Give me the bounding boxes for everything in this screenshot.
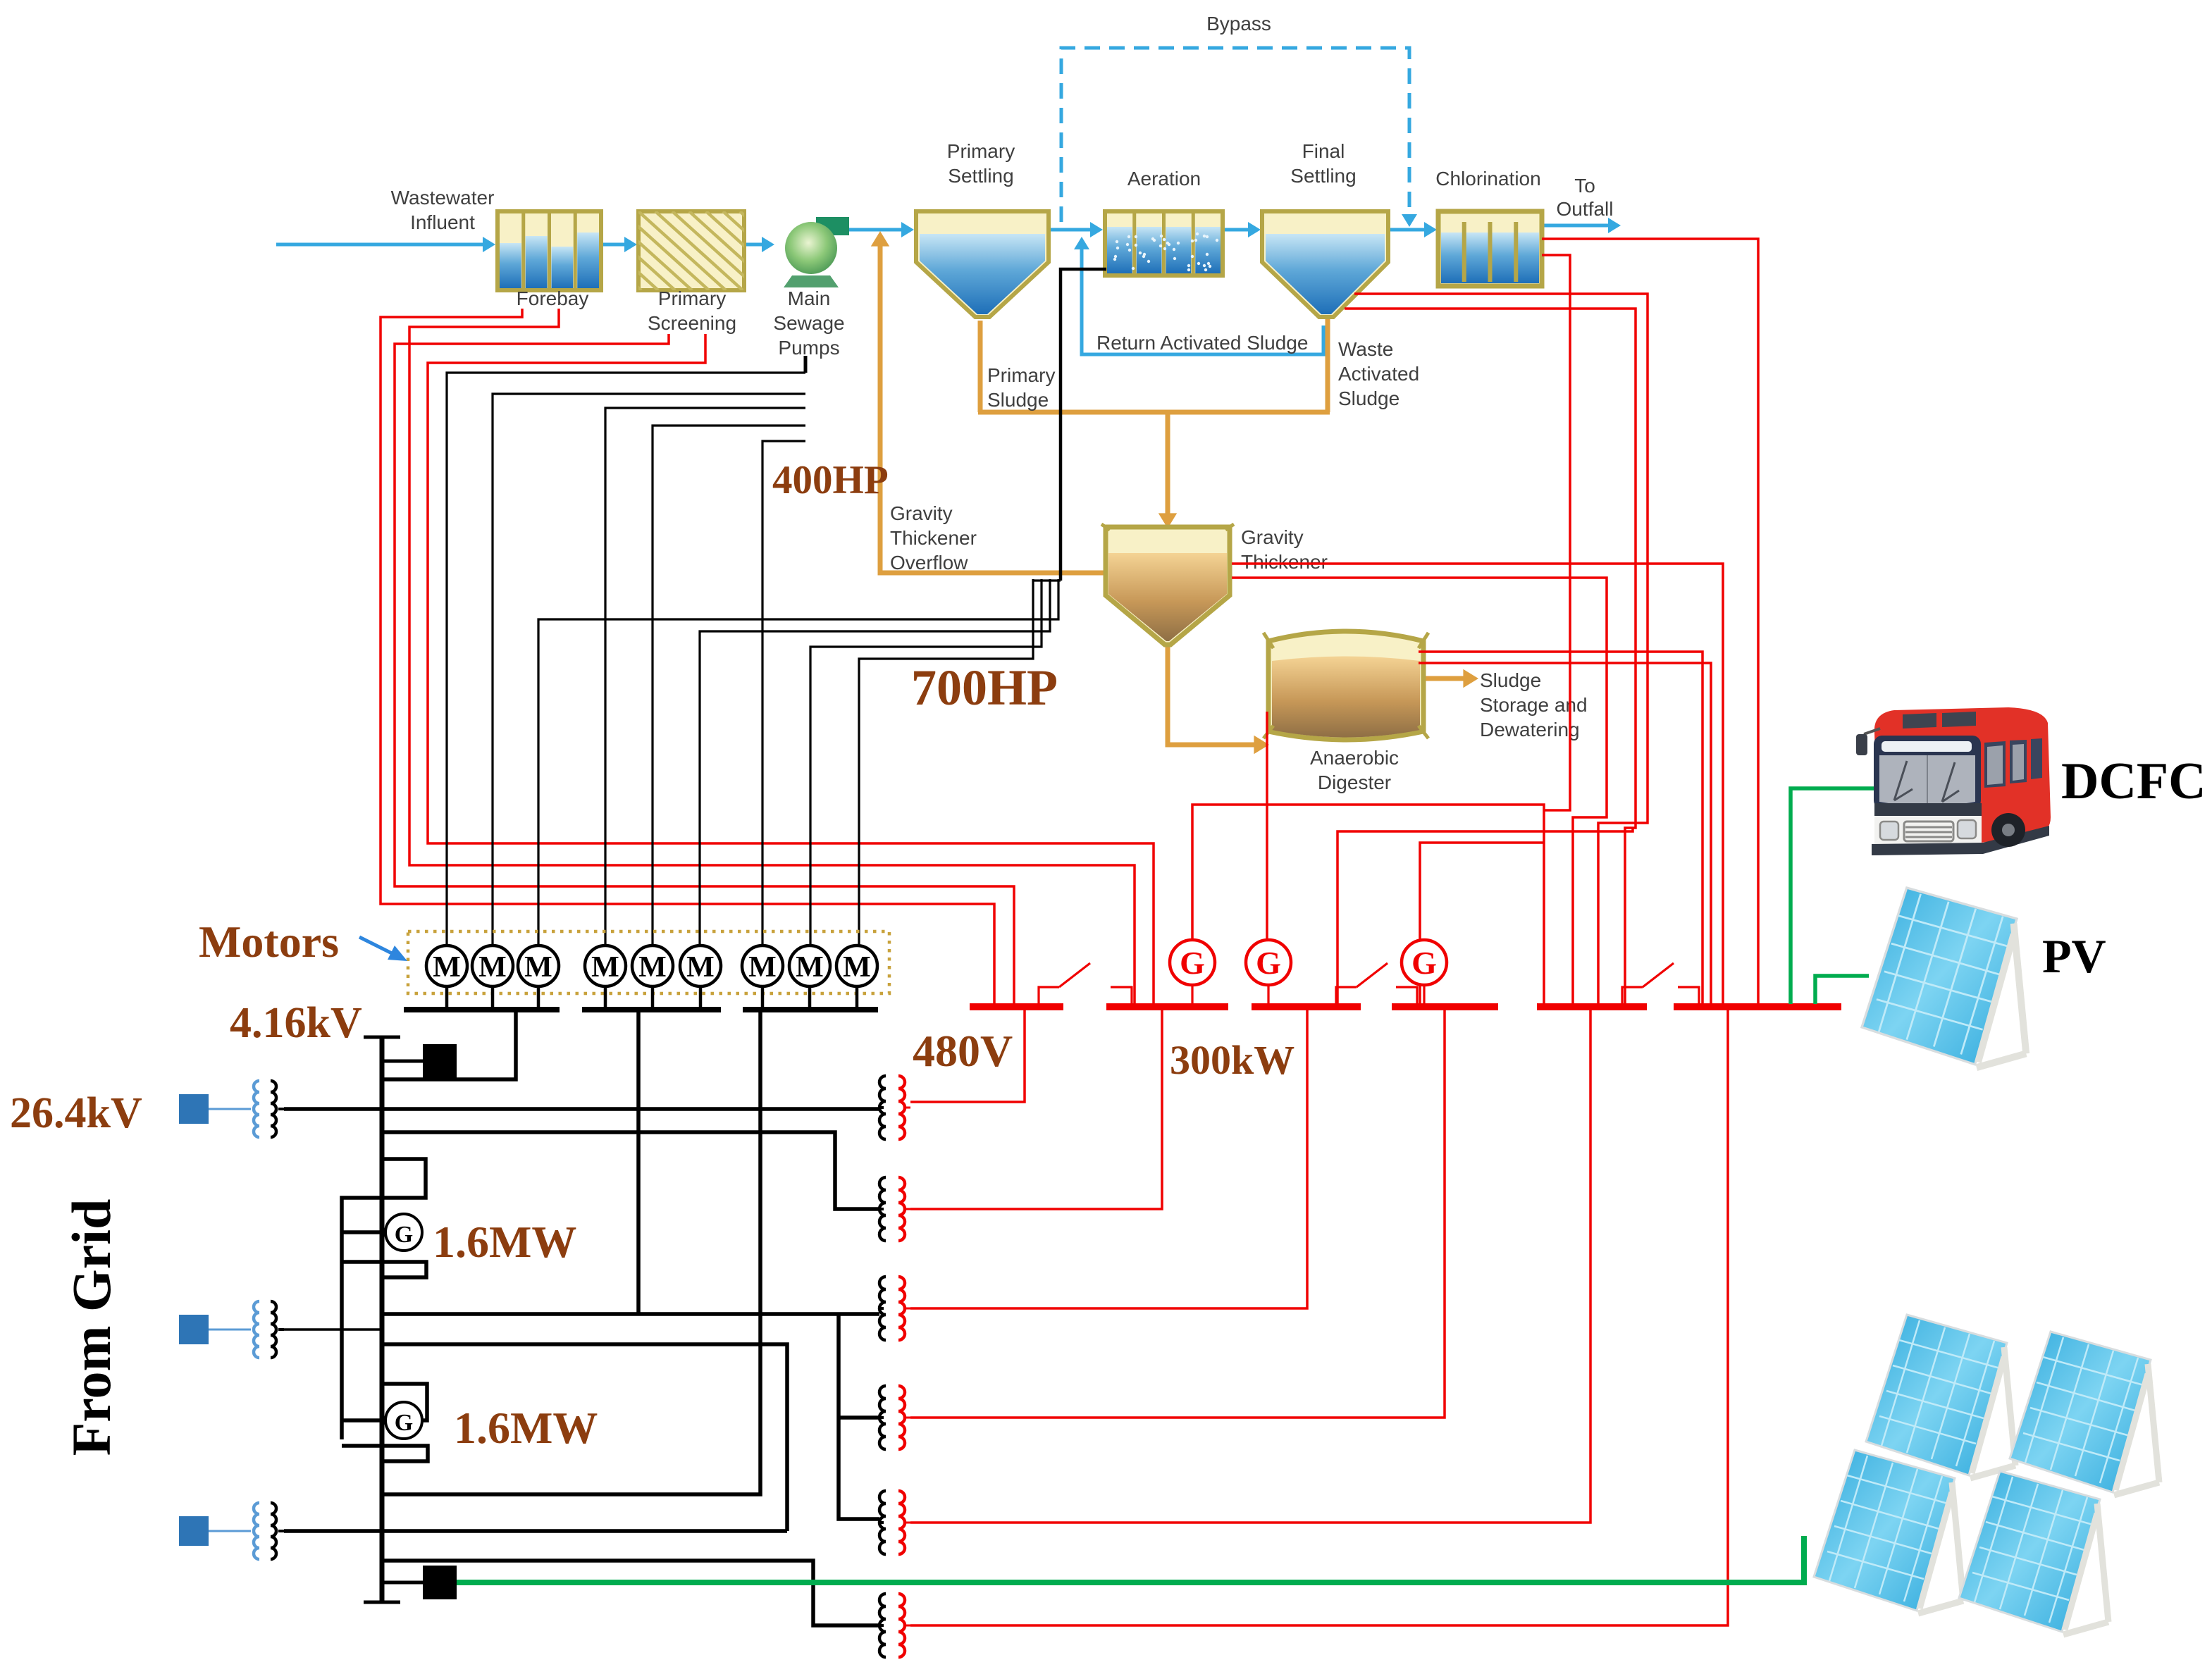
wire: thickener underflow to digester arrow	[1168, 643, 1259, 745]
bus: 4.16kV motor bus bar 2	[582, 1007, 721, 1012]
svg-text:DCFC: DCFC	[2061, 752, 2206, 810]
generator G5 (red)	[1423, 985, 1425, 1007]
motor M8	[789, 946, 830, 986]
wire: pump to primary settling arrow	[839, 228, 904, 232]
image: PV array panel back-left	[1866, 1315, 2015, 1478]
wire: 26.4kV line 3	[284, 1529, 787, 1533]
motor M3	[518, 946, 559, 986]
wire: final settling to chlorination arrow	[1390, 228, 1427, 232]
svg-text:400HP: 400HP	[772, 458, 889, 502]
svg-text:Primary: Primary	[658, 287, 726, 309]
svg-text:Sewage: Sewage	[773, 312, 844, 334]
transformer T4	[879, 1416, 884, 1419]
wire: pump label drop	[804, 356, 808, 373]
wire: return activated sludge line	[1082, 243, 1323, 354]
svg-text:G: G	[1411, 945, 1437, 981]
svg-text:Digester: Digester	[1318, 771, 1391, 793]
wire: red feed screening tap A	[395, 334, 1014, 1007]
motor M9	[836, 946, 877, 986]
generator G1	[342, 1230, 385, 1234]
wire: G2 loop top	[382, 1384, 427, 1420]
wire: waste activated sludge drop	[1326, 318, 1330, 412]
transformer T5	[879, 1521, 884, 1524]
svg-text:Primary: Primary	[987, 364, 1055, 386]
wire: G1 loop bottom	[342, 1262, 426, 1277]
grid transformer GT1	[179, 1094, 209, 1124]
pointer: motors arrow	[359, 937, 396, 955]
bus: 4.16kV main vertical	[380, 1037, 385, 1602]
wire: green DCFC feeder	[1791, 788, 1876, 1004]
wire: motor bus1 drop	[382, 1012, 516, 1079]
wire: red drop to transformer T4	[910, 1007, 1445, 1418]
svg-text:Wastewater: Wastewater	[391, 187, 495, 209]
svg-text:M: M	[843, 951, 871, 984]
svg-text:Pumps: Pumps	[778, 337, 839, 359]
svg-text:Activated: Activated	[1338, 363, 1419, 385]
wire: red G2 riser from digester	[1266, 712, 1268, 939]
svg-text:Settling: Settling	[1290, 165, 1356, 187]
transformer T1	[879, 1106, 884, 1109]
svg-text:M: M	[591, 951, 619, 984]
image: DCFC electric bus	[1856, 707, 2051, 855]
wire: motor m7 to pumps	[762, 441, 805, 948]
svg-text:G: G	[395, 1222, 413, 1248]
wire: outfall arrow	[1543, 224, 1611, 228]
svg-text:M: M	[796, 951, 824, 984]
switch: red bus breaker 2	[1336, 987, 1357, 1005]
wire: mid feeder	[382, 1344, 787, 1531]
svg-text:Gravity: Gravity	[1241, 526, 1304, 548]
motor M7	[742, 946, 783, 986]
generator G3 (red)	[1191, 985, 1193, 1007]
generator G4 (red)	[1267, 985, 1269, 1007]
wire: aeration to final settling arrow	[1224, 228, 1251, 232]
svg-text:300kW: 300kW	[1170, 1037, 1295, 1083]
wire: sludge header	[978, 410, 1330, 415]
svg-text:1.6MW: 1.6MW	[433, 1217, 576, 1267]
wire: red drop to transformer T6	[910, 1007, 1728, 1625]
svg-text:Motors: Motors	[199, 917, 339, 967]
wire: T3 feed	[382, 1312, 879, 1316]
tank: Anaerobic Digester	[1268, 631, 1423, 740]
wire: screening to pump arrow	[746, 243, 765, 247]
bus: 480V red bus segment A	[970, 1003, 1063, 1010]
pump: Main Sewage Pumps icon	[784, 275, 839, 287]
svg-text:700HP: 700HP	[911, 659, 1058, 716]
wire: 26.4kV line 2	[284, 1328, 382, 1331]
wire: motor m5 to pumps	[653, 426, 805, 948]
wire: T2 feed	[382, 1132, 879, 1209]
wire: red feed forebay tap B	[409, 309, 1135, 1007]
wire: aeration equipment drop	[1061, 269, 1106, 581]
wire: motor bus2 drop	[636, 1012, 641, 1314]
wire: red feed forebay tap A	[381, 309, 994, 1007]
svg-text:4.16kV: 4.16kV	[230, 999, 362, 1047]
svg-text:Influent: Influent	[410, 211, 475, 233]
transformer T3	[879, 1307, 884, 1310]
switch: red bus breaker 3	[1622, 987, 1643, 1005]
wire: red digester feed 2	[1419, 663, 1711, 1007]
breaker: black square 2	[382, 1581, 423, 1585]
wire: motor m9 to aeration	[859, 579, 1033, 948]
wire: gravity thickener overflow line	[880, 241, 1104, 573]
grid transformer GT2	[179, 1315, 209, 1344]
switch: red bus breaker 1	[1039, 987, 1059, 1005]
wire: motor m1 to pumps	[447, 373, 805, 948]
wire: motor m6 to aeration	[700, 579, 1050, 948]
wire: red bus tie C-E	[1337, 828, 1633, 1007]
breaker: black square 1	[382, 1060, 423, 1063]
motor M5	[632, 946, 673, 986]
wire: T4/T5 riser	[839, 1314, 879, 1519]
bus: 4.16kV motor bus bar 1	[404, 1007, 560, 1012]
image: PV array panel back-right	[2010, 1332, 2159, 1495]
svg-text:Screening: Screening	[648, 312, 736, 334]
svg-text:Overflow: Overflow	[890, 552, 968, 574]
motor M6	[680, 946, 721, 986]
wire: digester output arrow	[1422, 676, 1468, 681]
wire: red chlorination feed 2	[1542, 255, 1570, 810]
transformer T6	[879, 1624, 884, 1627]
wire: red G1 riser and tie	[1192, 805, 1544, 1007]
svg-text:Settling: Settling	[948, 165, 1013, 187]
svg-text:Final: Final	[1302, 140, 1345, 162]
wire: G2 loop bottom	[342, 1446, 428, 1461]
tank: Primary Settling	[916, 211, 1049, 317]
tank: Forebay	[498, 211, 601, 290]
svg-text:G: G	[1180, 945, 1205, 981]
tank: Chlorination	[1438, 211, 1542, 286]
svg-text:M: M	[686, 951, 715, 984]
wire: red digester feed 1	[1419, 652, 1703, 1007]
tank: Primary Screening	[638, 211, 744, 290]
wire: green bottom PV array feeder	[457, 1536, 1804, 1582]
svg-text:Thickener: Thickener	[1241, 551, 1328, 573]
image: PV array panel front-left	[1814, 1450, 1963, 1613]
svg-text:480V: 480V	[913, 1026, 1013, 1076]
svg-text:M: M	[433, 951, 461, 984]
svg-text:M: M	[638, 951, 667, 984]
wire: bypass dashed line	[1061, 48, 1409, 222]
tank: Final Settling	[1262, 211, 1388, 317]
wire: red feed screening tap B	[428, 334, 1154, 1007]
wire: 26.4kV line 1 to T1	[284, 1107, 879, 1111]
transformer T2	[879, 1208, 884, 1210]
generator G2	[342, 1418, 385, 1423]
wire: green PV feeder	[1815, 976, 1869, 1004]
bus: 480V red bus segment C	[1252, 1003, 1361, 1010]
svg-text:G: G	[395, 1410, 413, 1436]
wire: influent arrow	[276, 243, 485, 247]
svg-text:1.6MW: 1.6MW	[454, 1403, 598, 1453]
wire: motor m2 to pumps	[493, 394, 805, 948]
wire: red drop to transformer T3	[910, 1007, 1307, 1308]
wire: red final settling feed 2	[1345, 309, 1636, 1007]
image: PV array panel front-right	[1959, 1471, 2108, 1635]
wire: red thickener feed 2	[1232, 578, 1607, 1007]
svg-text:Gravity: Gravity	[890, 502, 953, 524]
wire: motor m4 to pumps	[605, 408, 805, 948]
grid transformer GT3	[179, 1516, 209, 1546]
svg-text:Main: Main	[788, 287, 831, 309]
svg-text:Forebay: Forebay	[517, 287, 589, 309]
svg-text:Chlorination: Chlorination	[1435, 168, 1540, 190]
svg-text:Thickener: Thickener	[890, 527, 977, 549]
svg-text:From Grid: From Grid	[61, 1199, 122, 1456]
wire: thickener feed arrow	[1166, 412, 1170, 516]
svg-text:PV: PV	[2042, 929, 2106, 983]
svg-text:M: M	[524, 951, 552, 984]
motor M4	[585, 946, 626, 986]
tank: Gravity Thickener	[1106, 527, 1230, 645]
tank: Aeration	[1105, 211, 1223, 275]
image: PV panel single	[1862, 888, 2026, 1067]
motor M1	[426, 946, 467, 986]
svg-text:G: G	[1256, 945, 1281, 981]
svg-text:Sludge: Sludge	[1480, 669, 1541, 691]
wire: red chlorination feed 1	[1542, 239, 1758, 1007]
wire: red bus tie D-E	[1420, 843, 1544, 1007]
wire: bus3 drop long	[382, 1012, 760, 1494]
svg-text:Sludge: Sludge	[987, 389, 1049, 411]
wire: red final settling feed 1	[1354, 294, 1648, 1007]
wire: motor m3 to aeration	[538, 579, 1058, 948]
wire: forebay to screening arrow	[603, 243, 628, 247]
wire: primary settling to aeration arrow	[1050, 228, 1093, 232]
wire: aeration bundle tie	[1033, 579, 1061, 581]
svg-text:M: M	[478, 951, 507, 984]
motor M2	[472, 946, 513, 986]
wire: red drop to transformer T5	[910, 1007, 1590, 1523]
svg-text:Primary: Primary	[947, 140, 1015, 162]
wire: red drop to transformer T1	[910, 1007, 1025, 1102]
svg-text:Waste: Waste	[1338, 338, 1393, 360]
svg-text:Aeration: Aeration	[1127, 168, 1201, 190]
svg-text:To: To	[1574, 175, 1595, 197]
wire: G1 loop top	[342, 1159, 426, 1439]
bus: 480V red bus segment B	[1106, 1003, 1228, 1010]
svg-text:Sludge: Sludge	[1338, 388, 1400, 409]
wire: red thickener feed 1	[1232, 564, 1723, 1007]
bus: 480V red bus segment F	[1674, 1003, 1841, 1010]
svg-text:Dewatering: Dewatering	[1480, 719, 1580, 740]
wire: red drop to transformer T2	[910, 1007, 1162, 1209]
svg-text:26.4kV: 26.4kV	[10, 1089, 142, 1137]
svg-text:M: M	[748, 951, 777, 984]
svg-text:Return Activated Sludge: Return Activated Sludge	[1096, 332, 1308, 354]
svg-text:Bypass: Bypass	[1206, 13, 1271, 35]
bus: 4.16kV motor bus bar 3	[743, 1007, 878, 1012]
bus: 480V red bus segment E	[1537, 1003, 1647, 1010]
box: motors dotted outline	[408, 931, 889, 993]
wire: motor m8 to aeration	[810, 579, 1042, 948]
wire: T6 feed	[382, 1561, 879, 1625]
svg-text:Anaerobic: Anaerobic	[1310, 747, 1399, 769]
wire: primary sludge drop	[978, 321, 983, 412]
wire: T4 stub	[839, 1415, 879, 1420]
svg-text:Outfall: Outfall	[1557, 198, 1614, 220]
bus: 480V red bus segment D	[1392, 1003, 1498, 1010]
